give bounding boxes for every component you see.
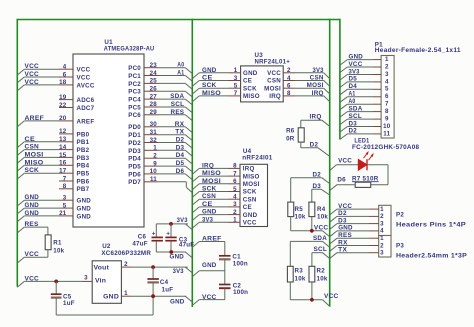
node RES U1 to bus [158, 109, 192, 121]
junction dot GND/C4 [151, 294, 155, 298]
node CE to U1 [17, 136, 59, 148]
svg-text:21: 21 [59, 210, 67, 217]
svg-text:GND: GND [170, 298, 185, 305]
svg-text:GND: GND [77, 213, 92, 220]
svg-text:15: 15 [59, 152, 67, 159]
svg-text:16: 16 [59, 160, 67, 167]
svg-text:13: 13 [59, 136, 67, 143]
svg-text:GND: GND [77, 206, 92, 213]
node A0 U1 to bus [158, 62, 192, 74]
svg-text:C6: C6 [138, 233, 147, 240]
svg-text:20: 20 [59, 115, 67, 122]
svg-text:TX: TX [338, 247, 348, 254]
svg-text:10: 10 [150, 168, 158, 175]
svg-text:SCK: SCK [25, 167, 40, 174]
svg-text:Header-Female-2.54_1x11: Header-Female-2.54_1x11 [375, 47, 461, 54]
svg-text:3: 3 [380, 250, 384, 257]
svg-text:IRQ: IRQ [310, 114, 322, 121]
svg-text:CSN: CSN [267, 78, 281, 85]
node GND to U4 [192, 209, 228, 221]
svg-text:MISO: MISO [243, 93, 260, 100]
svg-text:GND: GND [25, 210, 40, 217]
wire U2 GND pin [121, 290, 186, 297]
node VCC below C2 [192, 294, 225, 306]
svg-text:IRQ: IRQ [202, 162, 214, 169]
svg-text:GND: GND [338, 225, 353, 232]
svg-text:MISO: MISO [202, 170, 221, 177]
op-amp U1 ATMEGA328P-AU microcontroller [59, 39, 158, 227]
connector P3 Header2.54mm 1*3P [369, 235, 467, 259]
svg-text:11: 11 [383, 130, 390, 137]
svg-text:4: 4 [63, 64, 67, 71]
svg-text:D6: D6 [176, 168, 185, 175]
svg-text:8: 8 [385, 108, 389, 115]
svg-text:GND: GND [77, 198, 92, 205]
node D5 U1 to bus [158, 160, 192, 172]
svg-text:D3: D3 [313, 183, 322, 190]
svg-text:14: 14 [59, 144, 67, 151]
svg-text:PB2: PB2 [77, 147, 90, 154]
svg-text:MOSI: MOSI [25, 151, 44, 158]
svg-text:R2: R2 [317, 268, 326, 275]
connector P1 Header-Female-2.54_1x11 [373, 41, 461, 138]
svg-text:GND: GND [202, 67, 217, 74]
svg-text:2: 2 [385, 63, 389, 70]
svg-text:P3: P3 [396, 243, 404, 250]
svg-text:0R: 0R [286, 135, 295, 142]
svg-text:D4: D4 [176, 152, 185, 159]
node MISO to U3 [192, 90, 228, 102]
svg-text:D2: D2 [349, 128, 358, 135]
node SCL U1 to bus [158, 101, 192, 113]
svg-text:PC5: PC5 [128, 104, 141, 111]
svg-text:1: 1 [385, 56, 389, 63]
node CE to U3 [192, 75, 228, 87]
wire 3V3 rail to C6/C3 [156, 224, 188, 237]
svg-text:R3: R3 [295, 268, 304, 275]
node 3V3 from U3 [295, 67, 330, 79]
node GND mid C1C2 [192, 262, 225, 284]
svg-text:VCC: VCC [25, 79, 40, 86]
svg-text:D3: D3 [349, 120, 358, 127]
wire VCC under R5 R4 [291, 217, 330, 237]
svg-text:PB0: PB0 [77, 131, 90, 138]
svg-text:28: 28 [150, 101, 158, 108]
svg-text:18: 18 [59, 79, 67, 86]
svg-text:GND: GND [349, 53, 364, 60]
node IRQ from U3 [295, 90, 330, 102]
svg-text:2: 2 [233, 209, 237, 216]
svg-text:1uF: 1uF [63, 300, 75, 307]
svg-text:11: 11 [150, 176, 157, 183]
svg-text:MISO: MISO [25, 159, 44, 166]
node RES to P3 pin 1 [330, 232, 369, 244]
node D2 U1 to bus [158, 137, 192, 149]
junction dot 3V3/C3 [169, 222, 173, 226]
svg-text:D5: D5 [349, 76, 358, 83]
node MOSI from U3 [295, 82, 330, 94]
svg-text:2: 2 [380, 213, 384, 220]
svg-text:3V3: 3V3 [349, 68, 360, 75]
svg-text:IRQ: IRQ [243, 166, 255, 173]
svg-text:26: 26 [150, 86, 158, 93]
svg-text:100n: 100n [233, 260, 248, 267]
svg-text:9: 9 [385, 116, 389, 123]
svg-text:Header2.54mm 1*3P: Header2.54mm 1*3P [396, 252, 467, 259]
node VCC to LED1 [330, 157, 359, 170]
node D2 to R5 [291, 172, 330, 203]
node RES to R1 [17, 221, 48, 235]
node D6 U1 to bus [158, 168, 192, 180]
svg-text:CE: CE [243, 78, 252, 85]
svg-text:100n: 100n [233, 289, 248, 296]
svg-text:3V3: 3V3 [173, 268, 184, 275]
svg-text:1: 1 [380, 206, 384, 213]
svg-text:VCC: VCC [25, 63, 40, 70]
node MISO to U4 [192, 170, 228, 182]
svg-text:24: 24 [150, 70, 158, 77]
svg-text:5: 5 [63, 202, 67, 209]
svg-text:10k: 10k [295, 275, 306, 282]
svg-text:VCC: VCC [202, 294, 217, 301]
node GND to U1 [17, 202, 59, 214]
svg-text:VCC: VCC [324, 293, 339, 300]
junction dot Vout/C4 [151, 265, 155, 269]
svg-text:RX: RX [175, 121, 185, 128]
svg-text:10k: 10k [53, 247, 64, 254]
svg-text:VCC: VCC [338, 203, 352, 210]
svg-text:CE: CE [25, 136, 36, 143]
node D5 to P1 pin 4 [340, 76, 373, 88]
svg-text:CSN: CSN [25, 144, 40, 151]
resistor R1 10k [45, 235, 64, 255]
svg-text:GND: GND [202, 209, 217, 216]
svg-text:31: 31 [150, 129, 158, 136]
svg-text:D2: D2 [176, 137, 185, 144]
node CSN to U4 [192, 193, 228, 205]
svg-text:RX: RX [338, 239, 348, 246]
svg-text:D2: D2 [313, 172, 322, 179]
svg-text:MOSI: MOSI [264, 85, 281, 92]
svg-text:PB1: PB1 [77, 139, 90, 146]
svg-text:A1: A1 [349, 91, 356, 98]
node GND to P1 pin 1 [340, 53, 373, 65]
svg-text:VCC: VCC [77, 67, 91, 74]
svg-text:PC3: PC3 [128, 89, 141, 96]
svg-text:PD2: PD2 [128, 140, 141, 147]
svg-text:VCC: VCC [314, 225, 329, 232]
svg-text:3V3: 3V3 [202, 216, 213, 223]
node MISO to U1 [17, 159, 59, 171]
svg-text:VCC: VCC [349, 61, 363, 68]
svg-text:NRF24L01+: NRF24L01+ [255, 59, 291, 66]
svg-text:GND: GND [25, 194, 40, 201]
svg-text:D5: D5 [176, 160, 185, 167]
svg-text:AREF: AREF [77, 118, 95, 125]
svg-text:SCL: SCL [314, 246, 328, 253]
node TX to P3 pin 3 [330, 247, 369, 259]
node D3 to P2 pin 3 [330, 217, 369, 229]
svg-text:MISO: MISO [243, 173, 260, 180]
svg-text:ATMEGA328P-AU: ATMEGA328P-AU [104, 46, 155, 53]
wire VCC under R3 R2 [290, 282, 329, 306]
svg-text:CE: CE [202, 201, 213, 208]
node SDA to R3 [290, 235, 329, 266]
svg-text:PD1: PD1 [128, 132, 141, 139]
svg-text:GND: GND [25, 202, 40, 209]
node RX U1 to bus [158, 121, 192, 133]
node SCK to U4 [192, 186, 228, 198]
node AREF to U1 [17, 115, 59, 127]
svg-text:VCC: VCC [25, 251, 40, 258]
capacitor C5 1uF [51, 281, 75, 315]
svg-text:1: 1 [234, 67, 238, 74]
resistor R3 10k [287, 266, 305, 282]
svg-text:R4: R4 [317, 206, 326, 213]
svg-text:PC6: PC6 [128, 112, 141, 119]
svg-text:P2: P2 [396, 212, 404, 219]
svg-text:AREF: AREF [25, 115, 45, 122]
svg-text:SCK: SCK [202, 82, 217, 89]
svg-text:R6: R6 [286, 128, 295, 135]
svg-text:29: 29 [150, 109, 158, 116]
svg-text:CE: CE [243, 204, 252, 211]
wire U2 Vout [121, 261, 187, 268]
resistor R4 10k [309, 202, 328, 221]
resistor R5 10k [288, 202, 306, 221]
svg-text:17: 17 [59, 168, 67, 175]
svg-text:3V3: 3V3 [177, 217, 188, 224]
svg-text:3: 3 [63, 195, 67, 202]
svg-text:PC1: PC1 [128, 73, 141, 80]
node D2 to P2 pin 2 [330, 210, 369, 222]
svg-text:C1: C1 [232, 253, 241, 260]
node VCC to U1 [17, 79, 59, 91]
svg-text:ADC7: ADC7 [77, 105, 95, 112]
svg-text:PD7: PD7 [128, 179, 141, 186]
junction dot R2/VCC [310, 298, 314, 302]
svg-text:PB6: PB6 [77, 178, 90, 185]
svg-text:25: 25 [150, 78, 158, 85]
svg-text:GND: GND [202, 262, 217, 269]
node GND to U3 [192, 67, 228, 79]
svg-text:MOSI: MOSI [243, 181, 260, 188]
svg-text:VCC: VCC [77, 75, 91, 82]
svg-text:PD6: PD6 [128, 171, 141, 178]
svg-text:PD0: PD0 [128, 124, 141, 131]
svg-text:8: 8 [233, 163, 237, 170]
node CSN from U3 [295, 75, 330, 87]
svg-text:PC4: PC4 [128, 97, 141, 104]
node VCC to U1 [17, 71, 59, 83]
svg-text:Vout: Vout [94, 264, 110, 271]
svg-text:TX: TX [175, 129, 185, 136]
connector P2 Headers Pins 1*4P [369, 205, 466, 235]
node D3 to R4 [312, 183, 330, 202]
bus: middle vertical bus [191, 19, 193, 307]
node D2 from R6 [301, 142, 330, 157]
svg-text:D6: D6 [337, 176, 346, 183]
bus: right vertical bus A [329, 19, 331, 307]
svg-text:3V3: 3V3 [313, 67, 324, 74]
wire LED cathode to R7 [367, 165, 388, 185]
svg-text:VCC: VCC [338, 157, 352, 164]
svg-text:19: 19 [59, 94, 67, 101]
node SCL to R2 [312, 246, 330, 266]
svg-text:Vin: Vin [95, 278, 106, 285]
wire bottom return [56, 296, 153, 315]
svg-text:CE: CE [202, 75, 213, 82]
svg-text:CSN: CSN [243, 196, 257, 203]
svg-text:GND: GND [103, 293, 119, 300]
svg-text:IRQ: IRQ [269, 93, 281, 100]
svg-text:PB3: PB3 [77, 155, 90, 162]
svg-text:R1: R1 [53, 240, 62, 247]
svg-text:SCK: SCK [243, 189, 257, 196]
wire Vin [82, 275, 92, 282]
svg-text:1: 1 [380, 235, 384, 242]
svg-text:8: 8 [287, 90, 291, 97]
LED LED1 FC-2012GHK-570A08 [352, 138, 420, 171]
svg-text:1: 1 [153, 145, 157, 152]
svg-text:PD4: PD4 [128, 156, 141, 163]
svg-text:PB7: PB7 [77, 186, 90, 193]
svg-text:nRF24l01: nRF24l01 [242, 155, 273, 162]
svg-text:10: 10 [383, 123, 391, 130]
node CE to U4 [192, 201, 228, 213]
svg-text:RES: RES [338, 232, 352, 239]
svg-text:PD5: PD5 [128, 164, 141, 171]
svg-text:SCL: SCL [349, 113, 363, 120]
svg-text:VCC: VCC [25, 275, 40, 282]
node VCC label R2R3 [324, 293, 339, 300]
svg-text:5: 5 [234, 83, 238, 90]
svg-text:7: 7 [234, 90, 238, 97]
node GND to U1 [17, 194, 59, 206]
svg-text:SDA: SDA [170, 93, 184, 100]
node SDA to P1 pin 8 [340, 105, 373, 117]
node 3V3 from U2 Vout [173, 267, 193, 275]
svg-text:4: 4 [380, 228, 384, 235]
node IRQ to U4 [192, 162, 228, 174]
node IRQ to R6 [301, 114, 330, 128]
svg-text:10k: 10k [317, 275, 328, 282]
svg-text:22: 22 [59, 102, 67, 109]
svg-text:FC-2012GHK-570A08: FC-2012GHK-570A08 [352, 144, 420, 151]
svg-text:6: 6 [233, 178, 237, 185]
svg-text:1uF: 1uF [162, 286, 174, 293]
svg-text:32: 32 [150, 137, 158, 144]
svg-text:2: 2 [124, 261, 128, 268]
svg-text:GND: GND [170, 254, 185, 261]
svg-text:3: 3 [380, 220, 384, 227]
svg-text:3: 3 [233, 201, 237, 208]
svg-text:GND: GND [243, 70, 258, 77]
node wire U1 to bus [158, 91, 192, 97]
svg-text:2: 2 [287, 67, 291, 74]
node D3 U1 to bus [158, 144, 192, 156]
svg-text:GND: GND [243, 212, 258, 219]
svg-text:MISO: MISO [202, 90, 221, 97]
junction dot VCC/C5 [54, 280, 58, 284]
svg-text:D3: D3 [176, 144, 185, 151]
bus: left vertical bus [16, 19, 18, 287]
svg-text:U2: U2 [102, 243, 111, 250]
node D4 U1 to bus [158, 152, 192, 164]
svg-text:47uF: 47uF [132, 240, 147, 247]
svg-text:9: 9 [153, 160, 157, 167]
node CSN to U1 [17, 144, 59, 156]
svg-text:MOSI: MOSI [307, 82, 324, 89]
svg-text:Headers Pins 1*4P: Headers Pins 1*4P [396, 221, 466, 228]
svg-text:VCC: VCC [25, 71, 40, 78]
svg-text:SDA: SDA [349, 105, 363, 112]
svg-text:3: 3 [385, 71, 389, 78]
node MOSI to U1 [17, 151, 59, 163]
svg-text:6: 6 [385, 93, 389, 100]
svg-text:AREF: AREF [202, 236, 222, 243]
svg-text:+: + [152, 232, 156, 238]
node VCC to P2 pin 1 [330, 203, 369, 215]
node A1 U1 to bus [158, 70, 192, 82]
svg-text:5: 5 [385, 86, 389, 93]
junction dot GND/C3 [169, 250, 173, 254]
svg-text:A0: A0 [177, 62, 184, 69]
node SCL to P1 pin 9 [340, 113, 373, 125]
op-amp U4 nRF24l01 module [228, 148, 273, 226]
svg-text:4: 4 [287, 75, 291, 82]
node A1 to P1 pin 6 [340, 91, 373, 103]
resistor R2 10k [309, 266, 328, 282]
wire GND at C6/C3 [156, 251, 185, 253]
svg-text:6: 6 [287, 83, 291, 90]
node wire U1 to bus [158, 83, 192, 89]
svg-text:PC0: PC0 [128, 65, 141, 72]
svg-text:MOSI: MOSI [202, 178, 221, 185]
node GND to U1 [17, 210, 59, 222]
svg-text:27: 27 [150, 93, 158, 100]
junction dot R4/VCC [310, 229, 314, 233]
node VCC to U1 [17, 63, 59, 75]
svg-text:8: 8 [63, 183, 67, 190]
resistor R6 0R [286, 128, 304, 143]
svg-text:SCK: SCK [202, 186, 217, 193]
node GND from U2 [170, 296, 192, 305]
svg-text:5: 5 [233, 186, 237, 193]
svg-text:PB4: PB4 [77, 163, 90, 170]
capacitor C4 1uF [147, 267, 173, 296]
node MOSI to U4 [192, 178, 228, 190]
svg-text:4: 4 [233, 194, 237, 201]
svg-text:2: 2 [153, 153, 157, 160]
op-amp U3 NRF24L01+ module [229, 52, 296, 102]
svg-text:10k: 10k [317, 214, 328, 221]
svg-text:3: 3 [84, 275, 88, 282]
svg-text:D4: D4 [349, 83, 358, 90]
svg-text:10k: 10k [295, 214, 306, 221]
node D2 to P1 pin 11 [340, 128, 373, 140]
svg-text:SCK: SCK [243, 85, 257, 92]
node 3V3 to U4 [192, 216, 228, 228]
svg-text:47uF: 47uF [179, 241, 194, 248]
svg-text:SDA: SDA [313, 235, 327, 242]
svg-text:XC6206P332MR: XC6206P332MR [101, 250, 151, 257]
svg-text:RES: RES [25, 221, 39, 228]
capacitor C3 47uF polarized [165, 224, 194, 252]
transistor U2 XC6206P332MR regulator [92, 243, 151, 303]
svg-text:1: 1 [233, 217, 237, 224]
svg-text:AVCC: AVCC [77, 82, 95, 89]
